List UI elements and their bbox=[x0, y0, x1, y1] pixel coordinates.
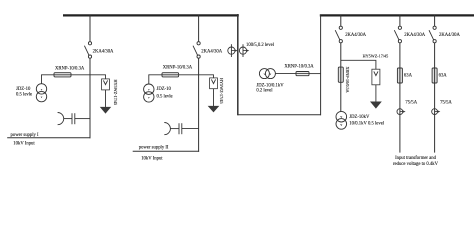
svg-text:2KA4/30A: 2KA4/30A bbox=[93, 49, 114, 54]
wire: switch QS3 down to TV4 bbox=[340, 43, 342, 112]
wire: bus II to switch QS5 bbox=[434, 15, 436, 26]
wire: VT tap horizontal bbox=[71, 74, 90, 76]
live-line indicator (capacitive) bbox=[164, 123, 198, 135]
ground bbox=[370, 102, 382, 109]
voltage transformer TV2 JDZ-10 bbox=[144, 84, 154, 102]
svg-text:power supply II: power supply II bbox=[139, 146, 169, 151]
wire: fuse to VT2 bbox=[149, 75, 162, 84]
wire: bus II to switch QS3 bbox=[340, 15, 342, 26]
wire: right riser to bus II bbox=[320, 15, 322, 116]
svg-text:HY5WZ-17/45: HY5WZ-17/45 bbox=[363, 53, 389, 58]
surge arrester FV1 HY5WZ-17/45 bbox=[102, 79, 110, 90]
svg-text:power supply I: power supply I bbox=[11, 133, 40, 138]
surge arrester FV3 HY5WZ-17/45 bbox=[372, 69, 380, 85]
current transformer TA4 75/5A bbox=[432, 109, 441, 115]
wire: arrester to ground bbox=[105, 90, 107, 107]
wire: fuse F3 to riser bbox=[309, 73, 321, 75]
switch QS1 (2KA4/30A) bbox=[84, 42, 91, 59]
fuse F4 XRNP-10/0.5A (vertical) bbox=[338, 67, 343, 82]
wire: bus I to switch QS2 bbox=[198, 15, 200, 42]
svg-text:2KA4/30A: 2KA4/30A bbox=[201, 49, 222, 54]
switch QS4 (2KA4/30A) bbox=[394, 26, 401, 43]
wire: switch QS4 down bbox=[399, 43, 401, 153]
svg-text:63A: 63A bbox=[439, 74, 448, 79]
svg-text:75/5A: 75/5A bbox=[440, 101, 452, 106]
wire: fuse to VT1 bbox=[42, 75, 55, 84]
svg-text:XRNP-10/0.3A: XRNP-10/0.3A bbox=[284, 64, 314, 69]
current transformer TA3 75/5A bbox=[397, 109, 406, 115]
current transformer TA1 bbox=[228, 44, 238, 57]
svg-text:10kV Input: 10kV Input bbox=[13, 142, 35, 147]
transformer TV4 JDZ-10kV bbox=[336, 111, 347, 129]
fuse F2 XRNP-10/0.3A bbox=[162, 73, 179, 77]
wire: arrester to ground bbox=[213, 89, 215, 106]
wire: bottom link bbox=[238, 114, 321, 116]
svg-text:100/5,0.2 level: 100/5,0.2 level bbox=[246, 43, 275, 48]
svg-text:0.5 levle: 0.5 levle bbox=[16, 93, 32, 98]
wire: VT tap horizontal bbox=[179, 74, 199, 76]
switch QS5 (2KA4/30A) bbox=[429, 26, 436, 43]
wire: heavy vertical tie from bus I bbox=[237, 14, 239, 115]
svg-text:HY5WZ-17/45: HY5WZ-17/45 bbox=[113, 80, 118, 106]
fuse F6 63A (vertical) bbox=[432, 68, 437, 83]
wire: arrester tap bbox=[90, 75, 106, 81]
metering transformer TV3 JDZ-10/0.1kV bbox=[259, 69, 275, 79]
surge arrester FV2 HY5WZ-17/45 bbox=[210, 78, 218, 89]
live-line indicator (capacitive) bbox=[58, 113, 90, 125]
switch QS3 (2KA4/30A) bbox=[335, 26, 342, 43]
svg-text:JDZ-10: JDZ-10 bbox=[16, 87, 31, 92]
svg-text:JDZ-10kV: JDZ-10kV bbox=[349, 115, 370, 120]
fuse F1 XRNP-10/0.3A bbox=[54, 73, 71, 77]
svg-text:2KA4/30A: 2KA4/30A bbox=[439, 33, 460, 38]
svg-text:0.5 levle: 0.5 levle bbox=[157, 95, 173, 100]
svg-text:2KA4/30A: 2KA4/30A bbox=[404, 33, 425, 38]
wire: feeder I horizontal bbox=[7, 137, 90, 139]
voltage transformer TV1 JDZ-10 bbox=[36, 84, 46, 102]
wire: switch QS2 down to feeder bbox=[198, 58, 200, 152]
bus bar right (10kV bus II) bbox=[320, 14, 474, 16]
wire: switch QS5 down bbox=[434, 43, 436, 153]
svg-text:reduce voltage to 0.4kV: reduce voltage to 0.4kV bbox=[393, 162, 439, 167]
svg-text:Input transformer and: Input transformer and bbox=[395, 156, 437, 161]
wire: bus I to switch QS1 bbox=[89, 15, 91, 42]
wire: switch QS1 down to feeder bbox=[89, 58, 91, 138]
ground bbox=[100, 107, 111, 114]
switch QS2 (2KA4/30A) bbox=[193, 42, 200, 59]
wire: feeder II horizontal bbox=[133, 150, 199, 152]
bus bar left (10kV bus I) bbox=[63, 14, 239, 16]
svg-text:10/0.1kV 0.5 level: 10/0.1kV 0.5 level bbox=[349, 122, 385, 127]
wire: bus II to switch QS4 bbox=[399, 15, 401, 26]
svg-text:63A: 63A bbox=[404, 74, 413, 79]
wire: arrester to ground bbox=[375, 85, 377, 102]
svg-text:XRNP-10/0.3A: XRNP-10/0.3A bbox=[163, 66, 193, 71]
svg-text:JDZ-10: JDZ-10 bbox=[157, 87, 172, 92]
ground bbox=[208, 106, 220, 113]
svg-text:0.2 level: 0.2 level bbox=[256, 88, 273, 93]
fuse F5 63A (vertical) bbox=[397, 68, 402, 83]
svg-text:2KA4/30A: 2KA4/30A bbox=[345, 33, 366, 38]
fuse F3 XRNP-10/0.3A bbox=[296, 72, 309, 76]
wire: arrester tap bbox=[199, 75, 214, 80]
wire: arrester tap bbox=[341, 60, 376, 71]
svg-text:XRNP-10/0.3A: XRNP-10/0.3A bbox=[55, 67, 85, 72]
svg-text:HY5WZ-17/45: HY5WZ-17/45 bbox=[219, 78, 224, 104]
svg-text:75/5A: 75/5A bbox=[405, 101, 417, 106]
wire: TV3 to fuse F3 bbox=[275, 73, 296, 75]
svg-text:10kV Input: 10kV Input bbox=[141, 157, 163, 162]
current transformer TA2 bbox=[239, 44, 249, 57]
svg-text:XRNP-10/0.5A: XRNP-10/0.5A bbox=[345, 67, 350, 93]
